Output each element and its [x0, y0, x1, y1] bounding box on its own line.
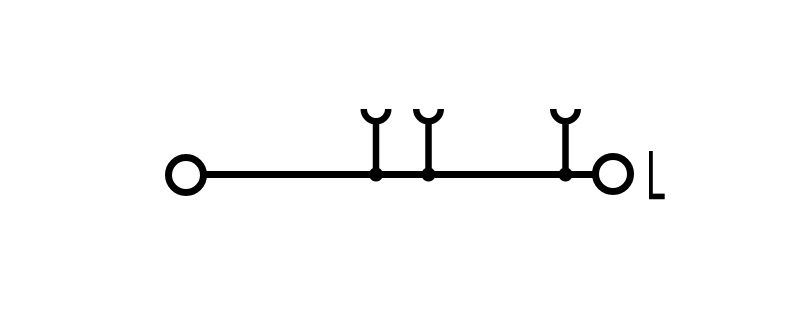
junction node 3 [559, 168, 573, 182]
fork contact 2 [416, 109, 441, 176]
label L net [649, 151, 665, 199]
terminal circle left [169, 158, 204, 193]
wire L bus [205, 171, 594, 178]
junction node 1 [369, 168, 383, 182]
fork contact 3 [553, 109, 578, 176]
terminal circle right [596, 157, 631, 192]
junction node 2 [422, 168, 436, 182]
fork contact 1 [364, 109, 389, 176]
